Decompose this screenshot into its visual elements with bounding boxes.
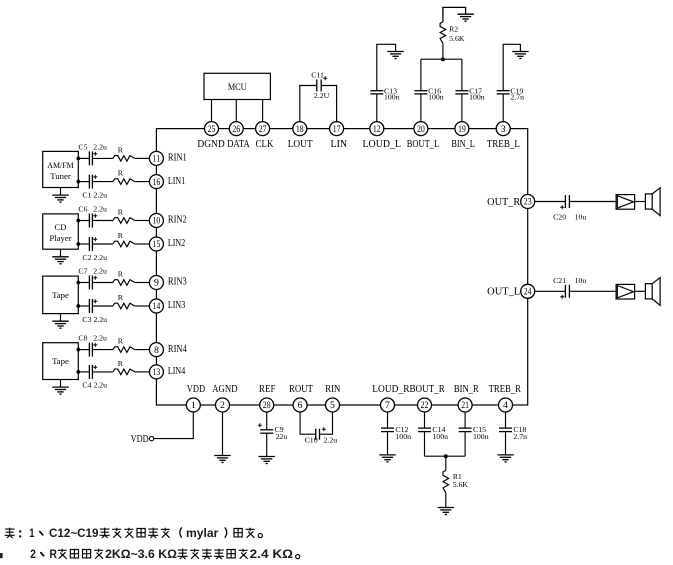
pin 5 (RIN) bbox=[325, 384, 341, 412]
wire C16-C17 junction bar bbox=[421, 58, 462, 60]
amplifier box (row 1) bbox=[616, 195, 635, 210]
svg-text:13: 13 bbox=[153, 367, 161, 378]
svg-text:17: 17 bbox=[333, 124, 341, 135]
resistor R (row C3) bbox=[113, 293, 135, 309]
svg-text:BIN_R: BIN_R bbox=[454, 384, 479, 395]
pin 17 (LIN) bbox=[330, 122, 348, 150]
wire pin 2 to ground bbox=[222, 411, 224, 456]
wire resistor to pin (row C6) bbox=[135, 220, 150, 222]
svg-text:2.2u: 2.2u bbox=[93, 267, 107, 276]
pin 6 (ROUT) bbox=[289, 384, 314, 412]
capacitor C16 bbox=[414, 59, 443, 123]
svg-text:R: R bbox=[118, 359, 124, 368]
VDD terminal bbox=[131, 434, 154, 445]
wire resistor to pin (row C3) bbox=[135, 305, 150, 307]
svg-text:R: R bbox=[118, 146, 124, 155]
pin 25 (DGND) bbox=[197, 122, 224, 150]
svg-text:LIN1: LIN1 bbox=[168, 176, 185, 187]
svg-text:100n: 100n bbox=[473, 432, 489, 441]
ground (C13) bbox=[387, 52, 403, 59]
wire MCU to pin 26 bbox=[235, 100, 237, 124]
svg-text:9: 9 bbox=[154, 278, 159, 289]
svg-text:LOUD_L: LOUD_L bbox=[363, 139, 402, 150]
wire resistor to pin (row C5) bbox=[135, 157, 150, 159]
svg-text:CLK: CLK bbox=[256, 139, 274, 150]
svg-text:10u: 10u bbox=[575, 276, 587, 285]
svg-text:RIN4: RIN4 bbox=[168, 344, 187, 355]
capacitor C20 10u bbox=[553, 195, 586, 222]
svg-text:TREB_L: TREB_L bbox=[487, 139, 520, 150]
capacitor C6 2.2u bbox=[78, 205, 107, 228]
capacitor C14 100n bbox=[418, 411, 448, 457]
svg-text:C11: C11 bbox=[311, 71, 324, 80]
node junction dot R2 bbox=[441, 57, 445, 61]
note line 1: C12~C19 mylar capacitor note bbox=[5, 527, 263, 540]
pin 16 (LIN1) bbox=[149, 175, 185, 189]
svg-text:OUT_R: OUT_R bbox=[487, 197, 520, 208]
svg-text:6: 6 bbox=[298, 400, 303, 411]
svg-text:TREB_R: TREB_R bbox=[489, 384, 522, 395]
svg-text:27: 27 bbox=[259, 124, 267, 135]
wire MCU to pin 27 bbox=[262, 100, 264, 124]
svg-text:11: 11 bbox=[153, 154, 161, 165]
ground (C18) bbox=[497, 455, 513, 462]
svg-text:Tape: Tape bbox=[52, 356, 69, 366]
pin 8 (RIN4) bbox=[149, 343, 186, 357]
svg-text:15: 15 bbox=[153, 239, 161, 250]
pin 11 (RIN1) bbox=[149, 151, 186, 165]
wire resistor to pin (row C1) bbox=[135, 181, 150, 183]
svg-text:BIN_L: BIN_L bbox=[451, 139, 474, 150]
svg-text:5.6K: 5.6K bbox=[453, 480, 469, 489]
wire source box to C2 (row y=244.0) bbox=[78, 243, 89, 245]
wire source box to C6 (row y=220.5) bbox=[78, 220, 89, 222]
wire pin17 riser bbox=[321, 86, 336, 124]
svg-text:1: 1 bbox=[191, 400, 196, 411]
wire resistor to pin (row C8) bbox=[135, 349, 150, 351]
pin 3 (TREB_L) bbox=[487, 122, 520, 150]
ground (C12) bbox=[379, 455, 395, 462]
svg-text:MCU: MCU bbox=[228, 82, 247, 92]
IC body U1 outline bbox=[156, 129, 527, 405]
wire C2 to resistor bbox=[92, 243, 113, 245]
node junction dot at source box (C5 row) bbox=[76, 157, 80, 161]
capacitor C13 bbox=[370, 44, 399, 123]
svg-text:RIN2: RIN2 bbox=[168, 215, 187, 226]
svg-text:C6: C6 bbox=[78, 205, 87, 214]
svg-text:25: 25 bbox=[208, 124, 216, 135]
wire pin18 riser bbox=[300, 86, 317, 124]
ground (AM/FM Tuner box) bbox=[52, 195, 68, 202]
ground (Tape box 1) bbox=[52, 321, 68, 328]
svg-text:C21: C21 bbox=[553, 276, 566, 285]
pin 13 (LIN4) bbox=[149, 365, 185, 379]
wire C4 to resistor bbox=[92, 371, 113, 373]
svg-text:21: 21 bbox=[461, 400, 469, 411]
svg-text:C7: C7 bbox=[78, 267, 87, 276]
node junction dot at source box (C2 row) bbox=[76, 242, 80, 246]
svg-text:4: 4 bbox=[503, 400, 508, 411]
pin 9 (RIN3) bbox=[149, 276, 186, 290]
wire source box to C7 (row y=282.5) bbox=[78, 282, 89, 284]
resistor R1 5.6K bbox=[443, 456, 468, 507]
svg-text:AGND: AGND bbox=[212, 384, 237, 395]
speaker (row 1) bbox=[645, 188, 660, 216]
svg-text:R: R bbox=[50, 549, 58, 561]
svg-text:R: R bbox=[118, 208, 124, 217]
capacitor C19 bbox=[497, 44, 524, 123]
svg-text:7: 7 bbox=[385, 400, 390, 411]
svg-text:LIN2: LIN2 bbox=[168, 238, 185, 249]
pin 12 (LOUD_L) bbox=[363, 122, 402, 150]
ground (AGND pin 2) bbox=[214, 456, 230, 463]
node junction dot at source box (C4 row) bbox=[76, 370, 80, 374]
resistor R (row C7) bbox=[113, 270, 135, 286]
svg-text:AM/FM: AM/FM bbox=[47, 160, 74, 170]
svg-text:R: R bbox=[118, 270, 124, 279]
pin 18 (LOUT) bbox=[288, 122, 314, 150]
svg-text:3: 3 bbox=[501, 124, 506, 135]
pin 10 (RIN2) bbox=[149, 214, 186, 228]
wire Tape box 2 to ground bbox=[60, 380, 62, 388]
pin 4 (TREB_R) bbox=[489, 384, 522, 412]
node junction dot at source box (C1 row) bbox=[76, 180, 80, 184]
svg-text:DGND: DGND bbox=[197, 139, 224, 150]
svg-text:DATA: DATA bbox=[227, 139, 250, 150]
svg-text:22: 22 bbox=[421, 400, 429, 411]
pin 22 (BOUT_R) bbox=[410, 384, 445, 412]
svg-text:1: 1 bbox=[29, 528, 35, 540]
svg-text:20: 20 bbox=[417, 124, 425, 135]
svg-text:Player: Player bbox=[49, 233, 71, 243]
svg-text:R: R bbox=[118, 169, 124, 178]
svg-text:C8: C8 bbox=[78, 334, 87, 343]
svg-text:VDD: VDD bbox=[131, 434, 149, 445]
pin 14 (LIN3) bbox=[149, 299, 185, 313]
svg-text:CD: CD bbox=[54, 222, 66, 232]
svg-text:ROUT: ROUT bbox=[289, 384, 314, 395]
svg-text:23: 23 bbox=[524, 197, 532, 208]
wire C21 to amplifier bbox=[569, 290, 616, 292]
pin 26 (DATA) bbox=[227, 122, 250, 150]
svg-text:2.2u: 2.2u bbox=[324, 436, 338, 445]
resistor R (row C2) bbox=[113, 231, 135, 247]
capacitor C9 22u bbox=[258, 411, 288, 457]
pin 24 (OUT_L) bbox=[487, 284, 535, 298]
svg-text:2KΩ~3.6 KΩ: 2KΩ~3.6 KΩ bbox=[105, 549, 177, 561]
wire pin to C20 bbox=[535, 201, 566, 203]
wire C8 to resistor bbox=[92, 349, 113, 351]
svg-text:100n: 100n bbox=[384, 93, 400, 102]
ground (C9) bbox=[259, 457, 275, 464]
pin 21 (BIN_R) bbox=[454, 384, 479, 412]
svg-text:BOUT_L: BOUT_L bbox=[407, 139, 439, 150]
pin 15 (LIN2) bbox=[149, 237, 185, 251]
wire C1 to resistor bbox=[92, 181, 113, 183]
svg-text:2.7n: 2.7n bbox=[513, 432, 527, 441]
wire C20 to amplifier bbox=[569, 201, 616, 203]
node junction dot at source box (C8 row) bbox=[76, 348, 80, 352]
svg-text:C10: C10 bbox=[305, 435, 318, 444]
ground (Tape box 2) bbox=[52, 387, 68, 394]
svg-text:C2 2.2u: C2 2.2u bbox=[82, 253, 107, 262]
pin 23 (OUT_R) bbox=[487, 195, 535, 209]
resistor R2 5.6K bbox=[440, 7, 466, 59]
svg-text:C20: C20 bbox=[553, 213, 566, 222]
capacitor C10 2.2u bbox=[300, 411, 337, 445]
capacitor C15 100n bbox=[459, 411, 489, 457]
svg-text:19: 19 bbox=[458, 124, 466, 135]
pin 28 (REF) bbox=[259, 384, 276, 412]
svg-text:BOUT_R: BOUT_R bbox=[410, 384, 445, 395]
svg-text:LIN4: LIN4 bbox=[168, 366, 185, 377]
Tape box 1 bbox=[43, 276, 79, 314]
svg-text:2.4 KΩ: 2.4 KΩ bbox=[250, 549, 294, 561]
MCU block bbox=[204, 73, 270, 99]
svg-text:RIN1: RIN1 bbox=[168, 153, 187, 164]
amplifier box (row 2) bbox=[616, 284, 635, 299]
resistor R (row C5) bbox=[113, 146, 135, 162]
wire CD Player box to ground bbox=[60, 249, 62, 257]
svg-text:C4 2.2u: C4 2.2u bbox=[82, 381, 107, 390]
svg-text:26: 26 bbox=[232, 124, 240, 135]
pin 2 (AGND) bbox=[212, 384, 237, 412]
wire amplifier to speaker (row 1) bbox=[635, 201, 646, 203]
wire source box to C1 (row y=181.6) bbox=[78, 181, 89, 183]
Tape box 2 bbox=[43, 343, 79, 380]
capacitor C11 bbox=[311, 71, 329, 101]
pin 1 (VDD) bbox=[186, 384, 205, 412]
svg-text:C12~C19: C12~C19 bbox=[49, 528, 99, 540]
svg-text:R: R bbox=[118, 293, 124, 302]
AM/FM Tuner box bbox=[43, 151, 79, 187]
svg-text:8: 8 bbox=[154, 345, 159, 356]
svg-text:28: 28 bbox=[263, 400, 271, 411]
svg-text:2.7n: 2.7n bbox=[510, 93, 524, 102]
svg-text:C3 2.2u: C3 2.2u bbox=[82, 315, 107, 324]
pin 27 (CLK) bbox=[256, 122, 274, 150]
svg-text:2.2U: 2.2U bbox=[314, 91, 330, 100]
svg-text:LOUT: LOUT bbox=[288, 139, 314, 150]
svg-text:R: R bbox=[118, 231, 124, 240]
resistor R (row C1) bbox=[113, 169, 135, 185]
capacitor C7 2.2u bbox=[78, 267, 107, 290]
wire amplifier to speaker (row 2) bbox=[635, 290, 646, 292]
svg-text:2: 2 bbox=[30, 549, 36, 561]
resistor R (row C8) bbox=[113, 337, 135, 353]
svg-text:R2: R2 bbox=[449, 24, 458, 33]
svg-text:100n: 100n bbox=[432, 432, 448, 441]
capacitor C18 2.7n bbox=[499, 411, 527, 455]
wire pin to C21 bbox=[535, 290, 566, 292]
svg-text:RIN: RIN bbox=[325, 384, 341, 395]
svg-text:2: 2 bbox=[220, 400, 225, 411]
svg-text:5.6K: 5.6K bbox=[449, 34, 465, 43]
svg-text:Tuner: Tuner bbox=[50, 171, 71, 181]
svg-text:5: 5 bbox=[330, 400, 335, 411]
node junction dot at source box (C7 row) bbox=[76, 281, 80, 285]
svg-text:OUT_L: OUT_L bbox=[487, 287, 520, 298]
svg-text:VDD: VDD bbox=[187, 384, 205, 395]
svg-text:2.2u: 2.2u bbox=[93, 205, 107, 214]
svg-text:C5: C5 bbox=[78, 142, 87, 151]
wire C6 to resistor bbox=[92, 220, 113, 222]
svg-text:12: 12 bbox=[373, 124, 381, 135]
svg-text:18: 18 bbox=[296, 124, 304, 135]
svg-text:Tape: Tape bbox=[52, 290, 69, 300]
pin 19 (BIN_L) bbox=[451, 122, 474, 150]
pin 20 (BOUT_L) bbox=[407, 122, 439, 150]
ground (R1) bbox=[438, 508, 454, 515]
wire C7 to resistor bbox=[92, 282, 113, 284]
capacitor C2 2.2u bbox=[82, 237, 107, 262]
wire source box to C3 (row y=306.0) bbox=[78, 305, 89, 307]
wire pin 1 to VDD terminal bbox=[154, 411, 194, 439]
wire C14-C15 junction bar bbox=[425, 455, 466, 457]
capacitor C17 bbox=[455, 59, 484, 123]
svg-text:24: 24 bbox=[524, 287, 532, 298]
capacitor C1 2.2u bbox=[82, 175, 107, 200]
svg-text:C1 2.2u: C1 2.2u bbox=[82, 190, 107, 199]
resistor R (row C6) bbox=[113, 208, 135, 224]
wire MCU to pin 25 bbox=[211, 100, 213, 124]
ground (CD Player box) bbox=[52, 257, 68, 264]
svg-text:100n: 100n bbox=[469, 93, 485, 102]
note margin mark bbox=[0, 553, 3, 558]
svg-text:10: 10 bbox=[153, 216, 161, 227]
svg-text:REF: REF bbox=[259, 384, 276, 395]
svg-text:2.2u: 2.2u bbox=[93, 142, 107, 151]
wire resistor to pin (row C2) bbox=[135, 243, 150, 245]
svg-text:16: 16 bbox=[153, 177, 161, 188]
wire Tape box 1 to ground bbox=[60, 314, 62, 322]
wire AM/FM Tuner box to ground bbox=[60, 188, 62, 196]
svg-text:LOUD_R: LOUD_R bbox=[372, 384, 409, 395]
node junction dot R1 bbox=[444, 454, 448, 458]
svg-text:LIN3: LIN3 bbox=[168, 300, 185, 311]
svg-text:LIN: LIN bbox=[331, 139, 348, 150]
capacitor C3 2.2u bbox=[82, 299, 107, 324]
capacitor C21 10u bbox=[553, 276, 586, 299]
node junction dot at source box (C3 row) bbox=[76, 304, 80, 308]
CD Player box bbox=[43, 214, 79, 249]
svg-text:22u: 22u bbox=[276, 432, 288, 441]
svg-text:10u: 10u bbox=[575, 213, 587, 222]
wire source box to C5 (row y=158.4) bbox=[78, 157, 89, 159]
svg-text:14: 14 bbox=[153, 301, 161, 312]
svg-text:mylar: mylar bbox=[186, 528, 219, 540]
capacitor C12 100n bbox=[381, 411, 411, 455]
ground (R2) bbox=[457, 14, 473, 21]
speaker (row 2) bbox=[645, 278, 660, 306]
capacitor C8 2.2u bbox=[78, 334, 107, 357]
resistor R (row C4) bbox=[113, 359, 135, 375]
svg-text:100n: 100n bbox=[395, 432, 411, 441]
wire C5 to resistor bbox=[92, 157, 113, 159]
pin 7 (LOUD_R) bbox=[372, 384, 409, 412]
note line 2: R range note bbox=[30, 549, 300, 561]
capacitor C5 2.2u bbox=[78, 142, 107, 165]
wire source box to C4 (row y=371.9) bbox=[78, 371, 89, 373]
node junction dot at source box (C6 row) bbox=[76, 219, 80, 223]
svg-text:100n: 100n bbox=[428, 93, 444, 102]
svg-text:R: R bbox=[118, 337, 124, 346]
ground (C19) bbox=[512, 52, 528, 59]
wire resistor to pin (row C4) bbox=[135, 371, 150, 373]
wire resistor to pin (row C7) bbox=[135, 282, 150, 284]
capacitor C4 2.2u bbox=[82, 365, 107, 390]
svg-text:RIN3: RIN3 bbox=[168, 277, 187, 288]
svg-text:2.2u: 2.2u bbox=[93, 334, 107, 343]
wire C3 to resistor bbox=[92, 305, 113, 307]
wire source box to C8 (row y=349.6) bbox=[78, 349, 89, 351]
